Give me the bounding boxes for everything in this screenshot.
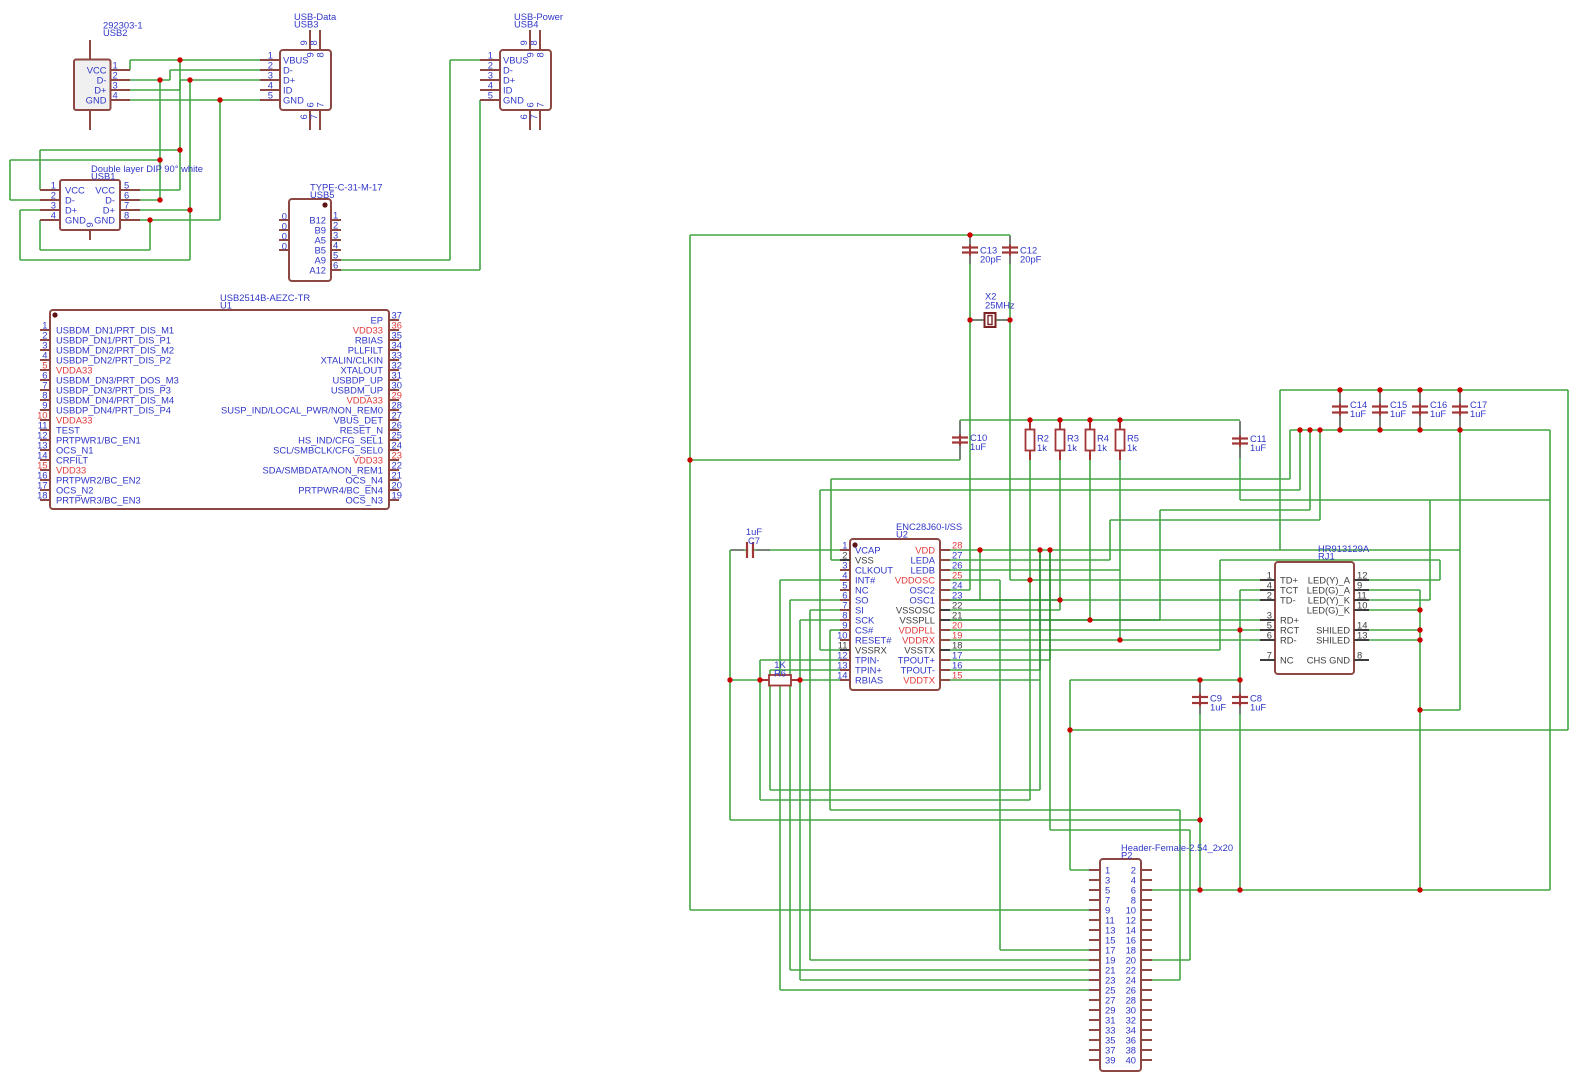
svg-text:1k: 1k	[1037, 442, 1047, 453]
svg-text:GND: GND	[503, 95, 524, 106]
svg-text:0: 0	[282, 241, 287, 252]
svg-text:4: 4	[113, 90, 118, 101]
svg-text:8: 8	[528, 40, 539, 45]
svg-text:4: 4	[51, 210, 56, 221]
svg-text:19: 19	[392, 490, 402, 501]
svg-text:5: 5	[488, 90, 493, 101]
svg-text:VDDTX: VDDTX	[903, 675, 936, 686]
svg-text:7: 7	[1267, 650, 1272, 661]
svg-text:RJ1: RJ1	[1318, 550, 1335, 561]
svg-text:1k: 1k	[1067, 442, 1077, 453]
svg-text:1uF: 1uF	[1470, 408, 1486, 419]
svg-text:1uF: 1uF	[1350, 408, 1366, 419]
svg-text:GND: GND	[65, 215, 86, 226]
svg-text:USB3: USB3	[294, 19, 319, 30]
svg-text:14: 14	[837, 670, 847, 681]
svg-text:1uF: 1uF	[970, 441, 986, 452]
svg-text:OCS_N3: OCS_N3	[345, 495, 383, 506]
svg-text:U1: U1	[220, 299, 232, 310]
svg-text:A12: A12	[309, 265, 326, 276]
svg-text:25MHz: 25MHz	[985, 300, 1015, 311]
svg-text:6: 6	[1267, 630, 1272, 641]
svg-text:1uF: 1uF	[1250, 702, 1266, 713]
svg-text:7: 7	[535, 102, 546, 107]
svg-text:15: 15	[952, 670, 962, 681]
svg-text:1uF: 1uF	[1430, 408, 1446, 419]
svg-text:CHS GND: CHS GND	[1307, 655, 1350, 666]
svg-text:8: 8	[1357, 650, 1362, 661]
svg-text:RBIAS: RBIAS	[855, 675, 883, 686]
svg-text:1uF: 1uF	[1390, 408, 1406, 419]
svg-text:1uF: 1uF	[1210, 702, 1226, 713]
svg-text:NC: NC	[1280, 655, 1294, 666]
svg-text:R6: R6	[774, 668, 786, 679]
svg-text:P2: P2	[1121, 849, 1132, 860]
svg-text:20pF: 20pF	[1020, 254, 1042, 265]
svg-text:7: 7	[315, 102, 326, 107]
svg-text:USB2514B-AEZC-TR: USB2514B-AEZC-TR	[220, 292, 310, 303]
svg-text:1uF: 1uF	[1250, 442, 1266, 453]
svg-text:RD-: RD-	[1280, 635, 1297, 646]
svg-text:10: 10	[1357, 600, 1367, 611]
svg-text:20pF: 20pF	[980, 254, 1002, 265]
svg-text:GND: GND	[86, 95, 107, 106]
svg-text:8: 8	[535, 52, 546, 57]
svg-text:GND: GND	[94, 215, 115, 226]
svg-text:TD-: TD-	[1280, 595, 1296, 606]
svg-text:USB4: USB4	[514, 19, 539, 30]
svg-text:5: 5	[268, 90, 273, 101]
svg-text:9: 9	[84, 222, 95, 227]
svg-text:7: 7	[308, 114, 319, 119]
svg-text:SHILED: SHILED	[1316, 635, 1350, 646]
svg-text:USB1: USB1	[91, 170, 116, 181]
svg-text:C7: C7	[748, 535, 760, 546]
svg-text:GND: GND	[283, 95, 304, 106]
svg-text:40: 40	[1126, 1055, 1136, 1066]
svg-text:PRTPWR3/BC_EN3: PRTPWR3/BC_EN3	[56, 495, 141, 506]
svg-text:USB2: USB2	[103, 27, 128, 38]
svg-text:39: 39	[1105, 1055, 1115, 1066]
svg-text:1k: 1k	[1097, 442, 1107, 453]
svg-text:USB5: USB5	[310, 189, 335, 200]
svg-text:6: 6	[333, 260, 338, 271]
svg-text:2: 2	[1267, 590, 1272, 601]
svg-text:8: 8	[124, 210, 129, 221]
svg-text:LED(G)_K: LED(G)_K	[1307, 605, 1351, 616]
svg-text:1k: 1k	[1127, 442, 1137, 453]
svg-text:7: 7	[528, 114, 539, 119]
svg-text:8: 8	[315, 52, 326, 57]
svg-text:Header-Female-2.54_2x20: Header-Female-2.54_2x20	[1121, 842, 1233, 853]
svg-text:U2: U2	[896, 528, 908, 539]
svg-text:8: 8	[308, 40, 319, 45]
svg-text:18: 18	[37, 490, 47, 501]
svg-text:13: 13	[1357, 630, 1367, 641]
